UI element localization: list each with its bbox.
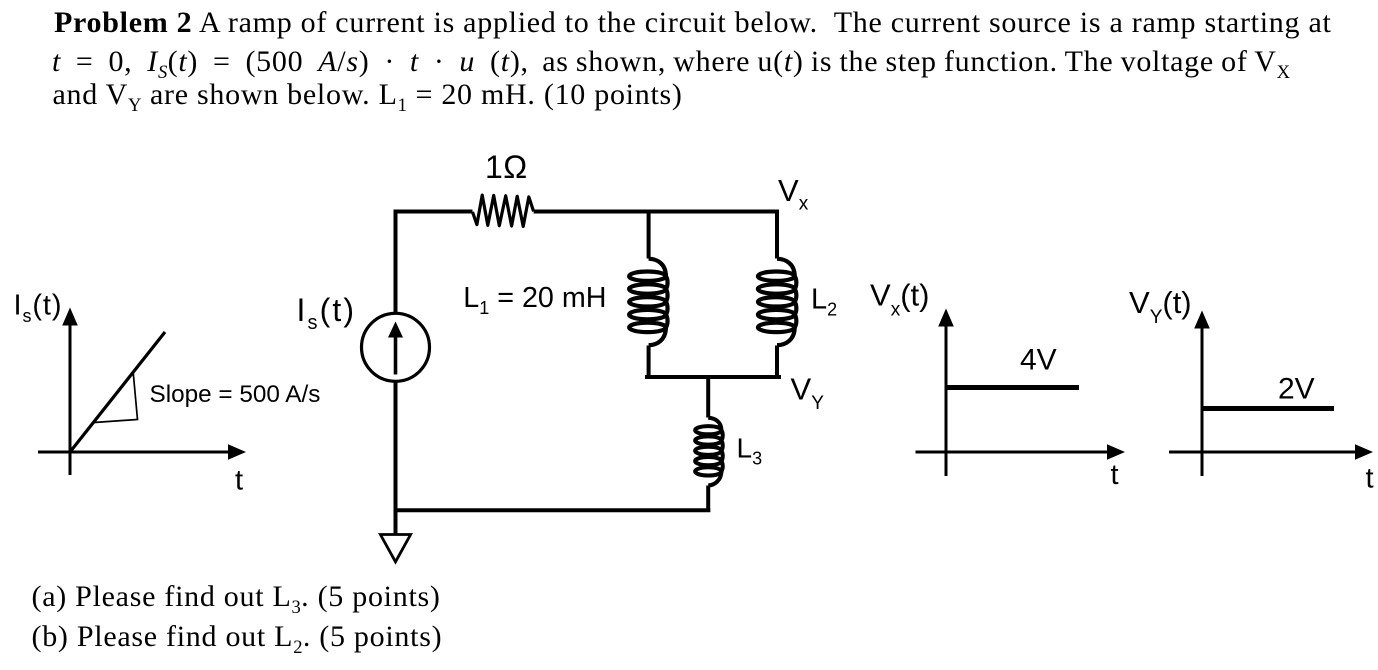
node VY label bbox=[791, 371, 825, 414]
current source circle bbox=[362, 313, 430, 381]
svg-text:L3: L3 bbox=[737, 432, 763, 468]
svg-text:Vx(t): Vx(t) bbox=[870, 278, 929, 321]
inductor L1 stub top bbox=[647, 210, 651, 259]
label Is(t) left graph bbox=[14, 290, 63, 327]
VY(t) graph x-axis bbox=[1169, 451, 1357, 454]
svg-text:Is(t): Is(t) bbox=[14, 290, 63, 327]
problem statement paragraph line 3 bbox=[53, 78, 683, 112]
svg-text:VY: VY bbox=[791, 371, 825, 414]
svg-text:L1 = 20 mH: L1 = 20 mH bbox=[463, 282, 606, 318]
label VY(t) bbox=[1129, 285, 1192, 328]
inductor L1 stub bottom bbox=[647, 346, 651, 379]
label 2V bbox=[1278, 373, 1315, 406]
Vx(t) graph x-axis bbox=[916, 451, 1110, 454]
svg-text:Vx: Vx bbox=[778, 173, 809, 215]
inductor L2 stub bottom bbox=[775, 346, 779, 379]
label Slope = 500 A/s bbox=[150, 381, 321, 408]
wire L2 corner vertical (top wire down to L2 coil) bbox=[775, 210, 779, 259]
inductor L3 coil bbox=[695, 418, 723, 486]
svg-text:Is(t): Is(t) bbox=[297, 292, 357, 334]
svg-text:1Ω: 1Ω bbox=[485, 149, 528, 185]
svg-text:Slope = 500 A/s: Slope = 500 A/s bbox=[150, 381, 321, 408]
Is(t) graph x-axis arrowhead bbox=[228, 444, 246, 460]
question a bbox=[32, 580, 441, 614]
label Is(t) source bbox=[297, 292, 357, 334]
problem statement paragraph line 2 bbox=[52, 45, 1290, 79]
svg-text:t: t bbox=[1366, 463, 1374, 495]
label L1 = 20 mH bbox=[463, 282, 606, 318]
ground symbol triangle bbox=[380, 535, 410, 562]
wire top left segment (source top to resistor) bbox=[394, 210, 473, 214]
node Vx label bbox=[778, 173, 809, 215]
current source arrow shaft bbox=[394, 335, 398, 375]
inductor L2 coil bbox=[758, 259, 796, 346]
label L2 bbox=[811, 284, 837, 320]
VY 2V level line bbox=[1203, 406, 1335, 411]
Vx(t) graph y-axis bbox=[945, 323, 948, 476]
Is(t) graph y-axis bbox=[69, 322, 72, 475]
VY(t) graph y-axis arrowhead bbox=[1194, 311, 1210, 329]
Vx(t) graph y-axis arrowhead bbox=[938, 309, 954, 327]
label 1 ohm bbox=[485, 149, 528, 185]
label 4V bbox=[1020, 344, 1057, 377]
label t Vx graph bbox=[1111, 459, 1119, 491]
Is(t) graph y-axis arrowhead bbox=[62, 308, 78, 326]
Is(t) graph x-axis bbox=[38, 451, 230, 454]
wire parallel bottom (L1 bottom to L2 bottom) bbox=[645, 375, 781, 379]
wire left vertical lower (source circle to ground node) bbox=[394, 382, 398, 534]
svg-text:t: t bbox=[235, 465, 243, 497]
svg-text:VY(t): VY(t) bbox=[1129, 285, 1192, 328]
svg-text:2V: 2V bbox=[1278, 373, 1315, 406]
slope indicator triangle bbox=[94, 373, 138, 423]
current source arrowhead bbox=[388, 322, 403, 338]
svg-text:4V: 4V bbox=[1020, 344, 1057, 377]
label L3 bbox=[737, 432, 763, 468]
wire center tap (parallel bottom down to L3 coil) bbox=[706, 377, 710, 418]
VY(t) graph x-axis arrowhead bbox=[1355, 444, 1373, 460]
Vx 4V level line bbox=[947, 385, 1080, 390]
inductor L1 coil bbox=[629, 259, 667, 346]
wire left vertical upper (top wire to source circle) bbox=[394, 210, 398, 315]
svg-text:L2: L2 bbox=[811, 284, 837, 320]
wire top right segment (resistor to Vx corner) bbox=[534, 210, 779, 214]
wire bottom (ground node to L3 bottom) bbox=[394, 508, 711, 512]
Is(t) ramp line bbox=[70, 332, 165, 452]
label Vx(t) bbox=[870, 278, 929, 321]
label t VY graph bbox=[1366, 463, 1374, 495]
question b bbox=[32, 620, 443, 654]
label t left graph bbox=[235, 465, 243, 497]
svg-text:t: t bbox=[1111, 459, 1119, 491]
VY(t) graph y-axis bbox=[1201, 325, 1204, 476]
Vx(t) graph x-axis arrowhead bbox=[1107, 444, 1125, 460]
inductor L3 stub bottom bbox=[706, 486, 710, 513]
problem statement paragraph line 1 bbox=[54, 6, 1332, 40]
resistor R1 1ohm zigzag bbox=[473, 195, 534, 226]
